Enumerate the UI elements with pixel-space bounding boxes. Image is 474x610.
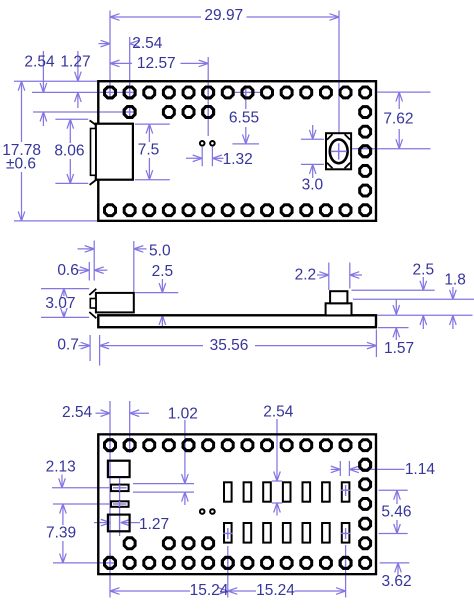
center mark pad row2 col2: [124, 106, 135, 117]
svg-text:2.13: 2.13: [46, 459, 76, 476]
dimension 0.6 (USB lip protrusion): [57, 241, 107, 281]
bottom view: square pad lower-left: [108, 515, 130, 532]
svg-text:2.54: 2.54: [24, 54, 55, 71]
dimension 7.5 (USB connector body): [135, 124, 170, 180]
center mark bottom-left pad: [105, 554, 116, 569]
dimension 1.14 (SMD pad width): [331, 461, 436, 478]
crystal center mark: [331, 143, 347, 159]
svg-text:8.06: 8.06: [54, 142, 84, 159]
1.14 line through right column pad: [359, 468, 372, 470]
top view: small holes pair: [200, 141, 215, 146]
side view: USB connector body: [96, 293, 134, 313]
svg-text:1.14: 1.14: [405, 461, 436, 478]
svg-text:15.24: 15.24: [190, 582, 229, 599]
svg-text:2.2: 2.2: [295, 266, 317, 283]
svg-text:3.0: 3.0: [302, 176, 324, 193]
dimension 2.54 (pad col1 to col2): [99, 35, 163, 98]
bottom view: bottom pad row (14 octagon pads): [105, 557, 371, 568]
svg-text:1.32: 1.32: [223, 151, 253, 168]
side view: pushbutton cap: [330, 291, 347, 303]
USB connector (top view) body: [96, 124, 133, 180]
bottom view: square pad upper-left: [108, 461, 130, 477]
svg-text:2.5: 2.5: [413, 261, 435, 278]
svg-text:1.27: 1.27: [139, 516, 169, 533]
svg-text:1.27: 1.27: [60, 54, 90, 71]
dimension 35.56 (board length): [100, 330, 377, 358]
dimension 2.54 (bottom view col1-col2): [62, 401, 149, 568]
bottom view: top pad row (14 octagon pads): [105, 440, 371, 451]
center mark SMD col7 lower: [223, 528, 232, 539]
top view: right pad column: [360, 107, 371, 196]
svg-text:2.54: 2.54: [263, 404, 294, 421]
top view board body: [98, 81, 376, 221]
center mark SMD rect1: [113, 485, 127, 492]
7.62 line through right column pad: [359, 148, 372, 150]
dimension 2.13 (square pad to SMD rect): [46, 459, 127, 504]
dimension 0.7 (USB overhang): [57, 335, 99, 366]
dimension 3.07 (USB connector height): [41, 289, 89, 318]
svg-text:1.57: 1.57: [384, 340, 414, 357]
extension line through left SMD column: [119, 460, 121, 484]
center mark SMD col13 upper: [341, 485, 350, 496]
bottom view: small holes pair: [200, 509, 215, 514]
svg-text:7.39: 7.39: [46, 524, 76, 541]
dimension 17.78 ±0.6 (board height): [2, 81, 98, 221]
1.27 arrows inside lower-left square pad: [101, 519, 131, 526]
svg-text:3.07: 3.07: [45, 295, 75, 312]
1.02 ext through pad col5: [184, 440, 186, 452]
svg-text:1.8: 1.8: [444, 272, 466, 289]
extension line board top (side view right): [377, 314, 473, 316]
bottom view: lower SMD pad row (7 pads): [224, 523, 349, 543]
side view: USB connector lip: [90, 299, 96, 309]
dimension 5.46 (SMD row spacing): [379, 490, 412, 533]
svg-text:7.62: 7.62: [383, 111, 413, 128]
dimensions 15.24 + 15.24 (col1-col7-col13): [110, 545, 346, 599]
USB connector (top view) corner marks: [90, 120, 97, 184]
dimension 2.54 (SMD pad height): [263, 404, 294, 516]
side view: USB connector corner marks: [89, 289, 96, 318]
extension line pad row 1 (left): [32, 91, 137, 93]
side view board body: [98, 315, 376, 327]
dimension 1.27 (board top to row1): [60, 51, 90, 108]
dimension 8.06 (USB connector incl. lip): [54, 119, 88, 183]
svg-text:15.24: 15.24: [256, 582, 295, 599]
x=110 line through lower-left square pad: [109, 515, 111, 532]
crystal/oscillator component (top view): [326, 133, 351, 169]
svg-text:0.7: 0.7: [57, 337, 79, 354]
center mark SMD rect2: [113, 501, 127, 507]
lines through bottom-view top row pads: [110, 438, 130, 454]
dimension 1.8 (button base height above board): [353, 272, 474, 329]
dimension 1.27 (col1 to SMD column center): [94, 484, 169, 536]
center mark pad2 row1: [124, 87, 135, 98]
bottom view: right pad column: [360, 459, 371, 548]
dimension 1.02 (SMD pad thickness): [133, 406, 198, 506]
6.55 line through pad col8: [242, 91, 254, 93]
svg-text:3.62: 3.62: [382, 573, 412, 590]
dimension 29.97 (pad col 1 to crystal center): [110, 7, 339, 133]
svg-text:2.54: 2.54: [132, 35, 163, 52]
pad outlines re-stroked over marks: [105, 87, 371, 568]
12.57 ext line through row1 col6 pad: [207, 87, 209, 98]
svg-text:7.5: 7.5: [138, 141, 160, 158]
USB connector (top view) lip: [91, 129, 96, 176]
dimension 12.57 (pad col1 to small holes center): [110, 55, 208, 136]
dimension 6.55 (row1 to small holes): [229, 92, 263, 143]
dimension 2.5 (USB top above board): [135, 263, 178, 327]
bottom view: SMD rect pad 1 (left col): [111, 485, 129, 492]
dimension 3.0 (crystal body): [301, 125, 324, 193]
svg-text:±0.6: ±0.6: [6, 155, 36, 172]
dimension 7.62 (row1 to crystal center): [352, 92, 430, 149]
dimension 2.2 (button width): [295, 263, 362, 291]
bottom view: SMD rect pad 2 (left col): [111, 501, 129, 507]
svg-text:6.55: 6.55: [229, 109, 259, 126]
top view: board outline: [98, 81, 376, 221]
center mark SMD col13 lower: [341, 528, 350, 539]
line through bottom row pad col7: [227, 556, 229, 570]
svg-text:5.0: 5.0: [149, 242, 171, 259]
line through bottom row pad col13: [345, 556, 347, 570]
dimension 3.62 (SMD row to bottom row): [380, 563, 412, 590]
bottom view: upper SMD pad row (7 pads): [224, 482, 349, 501]
line through lower-left square pad: [108, 515, 120, 532]
side view: PCB profile: [98, 315, 376, 327]
bottom view board body: [98, 434, 376, 574]
top view: bottom pad row (14 octagon pads): [105, 205, 371, 216]
svg-text:12.57: 12.57: [137, 55, 176, 72]
extension line pad row 2 (left): [33, 111, 137, 113]
side view: pushbutton base: [326, 303, 352, 315]
dimension 1.32 (small holes spacing): [186, 147, 253, 168]
bottom view: board outline: [98, 434, 376, 574]
top view: pad row 2 (cols 2,4,5,6): [124, 107, 213, 118]
x=110 line through upper-left square pad: [109, 461, 111, 477]
bottom view: pad row cols 2,4,5,6: [124, 538, 213, 549]
dimension 2.54 (row1 to row2): [24, 51, 55, 126]
12.57 ext line through row2 col6 pad: [207, 106, 209, 117]
extension line board top edge (left): [14, 80, 98, 82]
center mark pad1 row1: [105, 87, 115, 98]
dimension 2.5 (button cap height above board): [352, 261, 435, 329]
dimension 5.0 (USB connector depth): [78, 241, 171, 292]
svg-text:5.46: 5.46: [381, 504, 411, 521]
svg-text:0.6: 0.6: [57, 262, 79, 279]
svg-text:1.02: 1.02: [168, 406, 198, 423]
svg-text:35.56: 35.56: [210, 337, 249, 354]
dimension 1.57 (board thickness): [378, 299, 414, 357]
svg-text:2.5: 2.5: [152, 263, 174, 280]
6.55 ext through pad col8: [245, 87, 247, 100]
dimension 7.39: [46, 504, 104, 563]
svg-text:2.54: 2.54: [62, 404, 93, 421]
top view: pad row 1 (14 octagon pads): [105, 87, 371, 98]
svg-text:29.97: 29.97: [204, 7, 243, 24]
